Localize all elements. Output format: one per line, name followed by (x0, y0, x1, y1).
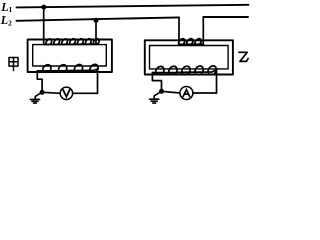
wire line L1 (17, 5, 249, 8)
wire drop from L2 corner to primary of transformer 乙 (178, 17, 180, 44)
junction dot secondary 乙 (159, 89, 164, 94)
junction dot on L2 (94, 18, 99, 23)
wire secondary 乙 right lead (216, 70, 218, 93)
svg-text:L1: L1 (0, 0, 12, 14)
svg-text:L2: L2 (0, 13, 12, 27)
wire stub top right (203, 16, 248, 18)
transformer 乙 core outer rectangle (145, 40, 233, 74)
wire ammeter to right lead (193, 92, 217, 94)
ammeter A (180, 87, 193, 100)
wire drop from stub to primary of transformer 乙 (202, 17, 204, 44)
transformer 甲 secondary winding (37, 64, 98, 72)
wire junction to voltmeter (42, 92, 60, 93)
transformer 乙 core inner rectangle (150, 46, 229, 69)
wire line L2 (17, 17, 180, 20)
wire voltmeter to right lead (73, 92, 98, 94)
wire junction to ammeter (162, 91, 180, 93)
ground symbol right (150, 91, 162, 103)
label 乙 (239, 52, 248, 61)
junction dot secondary 甲 (40, 90, 45, 95)
wire secondary 甲 right lead (97, 69, 99, 93)
ground symbol left (30, 92, 42, 103)
wire secondary 乙 left lead with jog (152, 73, 161, 92)
voltmeter V (60, 87, 72, 99)
transformer 甲 primary winding (44, 39, 99, 45)
wire drop from L2 to primary of transformer 甲 (95, 20, 97, 44)
junction dot on L1 (41, 5, 46, 10)
transformer 乙 primary winding (179, 39, 204, 45)
label 甲 (9, 58, 18, 71)
transformer 甲 core inner rectangle (33, 45, 107, 66)
wire secondary 甲 left lead with jog (37, 71, 42, 92)
transformer 甲 core outer rectangle (28, 40, 112, 73)
wire drop from L1 to primary of transformer 甲 (43, 7, 45, 44)
transformer 乙 secondary winding (152, 66, 216, 74)
